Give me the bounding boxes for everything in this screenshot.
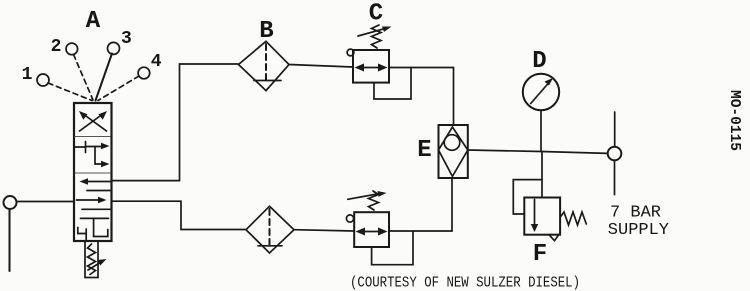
svg-text:4: 4 xyxy=(151,52,162,72)
svg-text:7 BAR: 7 BAR xyxy=(610,204,661,223)
shuttle valve E ball xyxy=(444,135,460,151)
svg-text:MO-0115: MO-0115 xyxy=(726,90,743,151)
wire: left port to valve xyxy=(17,201,75,203)
svg-text:D: D xyxy=(532,48,546,75)
valve A cell3 right arrow xyxy=(77,197,111,210)
svg-text:B: B xyxy=(259,18,273,45)
shuttle valve E body xyxy=(439,125,468,178)
pilot port 1 xyxy=(37,74,49,86)
wire: bottom filter to bottom regulator xyxy=(294,230,354,231)
filter B sump chord xyxy=(254,80,281,82)
valve A cell4 flow paths xyxy=(78,218,109,240)
bottom regulator body xyxy=(354,212,389,247)
valve F body xyxy=(524,198,560,235)
valve A spring adjust arrow xyxy=(88,259,107,270)
svg-text:3: 3 xyxy=(121,29,132,49)
svg-text:F: F xyxy=(533,241,547,268)
pilot port 2 xyxy=(66,43,78,55)
valve A cell2 flow arrows xyxy=(87,143,110,167)
wire: down to valve F xyxy=(541,152,543,198)
wire: main output line E to supply node xyxy=(468,150,608,153)
pilot line 1 (dashed) xyxy=(48,83,92,101)
bottom regulator adjust arrow xyxy=(348,191,387,199)
regulator C flow arrows xyxy=(355,64,388,72)
wire: valve to bottom rail xyxy=(112,201,247,229)
bottom filter element (dashed) xyxy=(269,209,271,246)
valve A position separators xyxy=(75,137,110,174)
valve A spring xyxy=(88,244,96,275)
svg-text:E: E xyxy=(417,137,431,164)
pilot port 3 xyxy=(108,42,120,54)
filter B element (dashed) xyxy=(265,44,267,81)
regulator C body xyxy=(353,50,389,83)
valve F pilot loop xyxy=(513,180,542,214)
svg-text:2: 2 xyxy=(51,37,62,57)
wire: valve to top rail xyxy=(112,64,239,181)
pilot line 3 (solid, selected) xyxy=(96,54,113,101)
gauge D dial xyxy=(523,74,559,110)
svg-text:A: A xyxy=(86,8,101,35)
gauge D stem xyxy=(540,111,542,152)
bottom regulator vent bump xyxy=(346,215,353,222)
svg-text:SUPPLY: SUPPLY xyxy=(608,221,669,240)
wire: B to C xyxy=(289,65,353,68)
bottom filter diamond xyxy=(246,206,294,253)
pilot line 4 (dashed) xyxy=(98,76,139,101)
valve A spring box xyxy=(85,241,98,278)
wire: up to shuttle E bottom xyxy=(451,178,453,231)
valve A cell2 blocked port xyxy=(75,142,86,153)
regulator C vent bump xyxy=(347,49,354,56)
valve F spring xyxy=(560,212,586,225)
bottom regulator feedback loop xyxy=(372,232,413,265)
shuttle valve E seat diamond xyxy=(439,127,468,176)
valve F exhaust triangle xyxy=(549,235,559,241)
regulator C spring xyxy=(372,25,382,48)
bottom regulator spring xyxy=(369,191,379,210)
regulator C adjust arrow xyxy=(358,27,392,37)
svg-text:(COURTESY OF NEW SULZER DIESEL: (COURTESY OF NEW SULZER DIESEL) xyxy=(350,275,580,291)
valve A cell3 left arrow xyxy=(80,178,111,190)
supply node circle xyxy=(608,147,622,161)
wire: supply stub down xyxy=(614,160,616,194)
svg-text:C: C xyxy=(369,1,383,28)
wire: bottom regulator output xyxy=(389,230,452,232)
regulator C feedback loop xyxy=(374,68,411,100)
gauge D needle xyxy=(531,78,553,104)
wire: C to shuttle E top xyxy=(453,68,455,126)
valve A cell1 crossed arrows xyxy=(79,111,107,131)
valve A body xyxy=(74,103,112,241)
bottom filter sump chord xyxy=(258,245,282,247)
wire: C output xyxy=(389,67,454,69)
valve F flow arrow xyxy=(531,200,538,233)
pilot line 2 (dashed) xyxy=(74,55,94,101)
filter B diamond xyxy=(239,41,290,90)
svg-text:1: 1 xyxy=(22,65,33,85)
wire: left port drop xyxy=(9,209,11,271)
bottom regulator flow arrows xyxy=(356,228,388,236)
wire: supply stub up xyxy=(614,112,616,147)
pilot port 4 xyxy=(138,67,150,79)
left supply port circle xyxy=(4,196,17,209)
